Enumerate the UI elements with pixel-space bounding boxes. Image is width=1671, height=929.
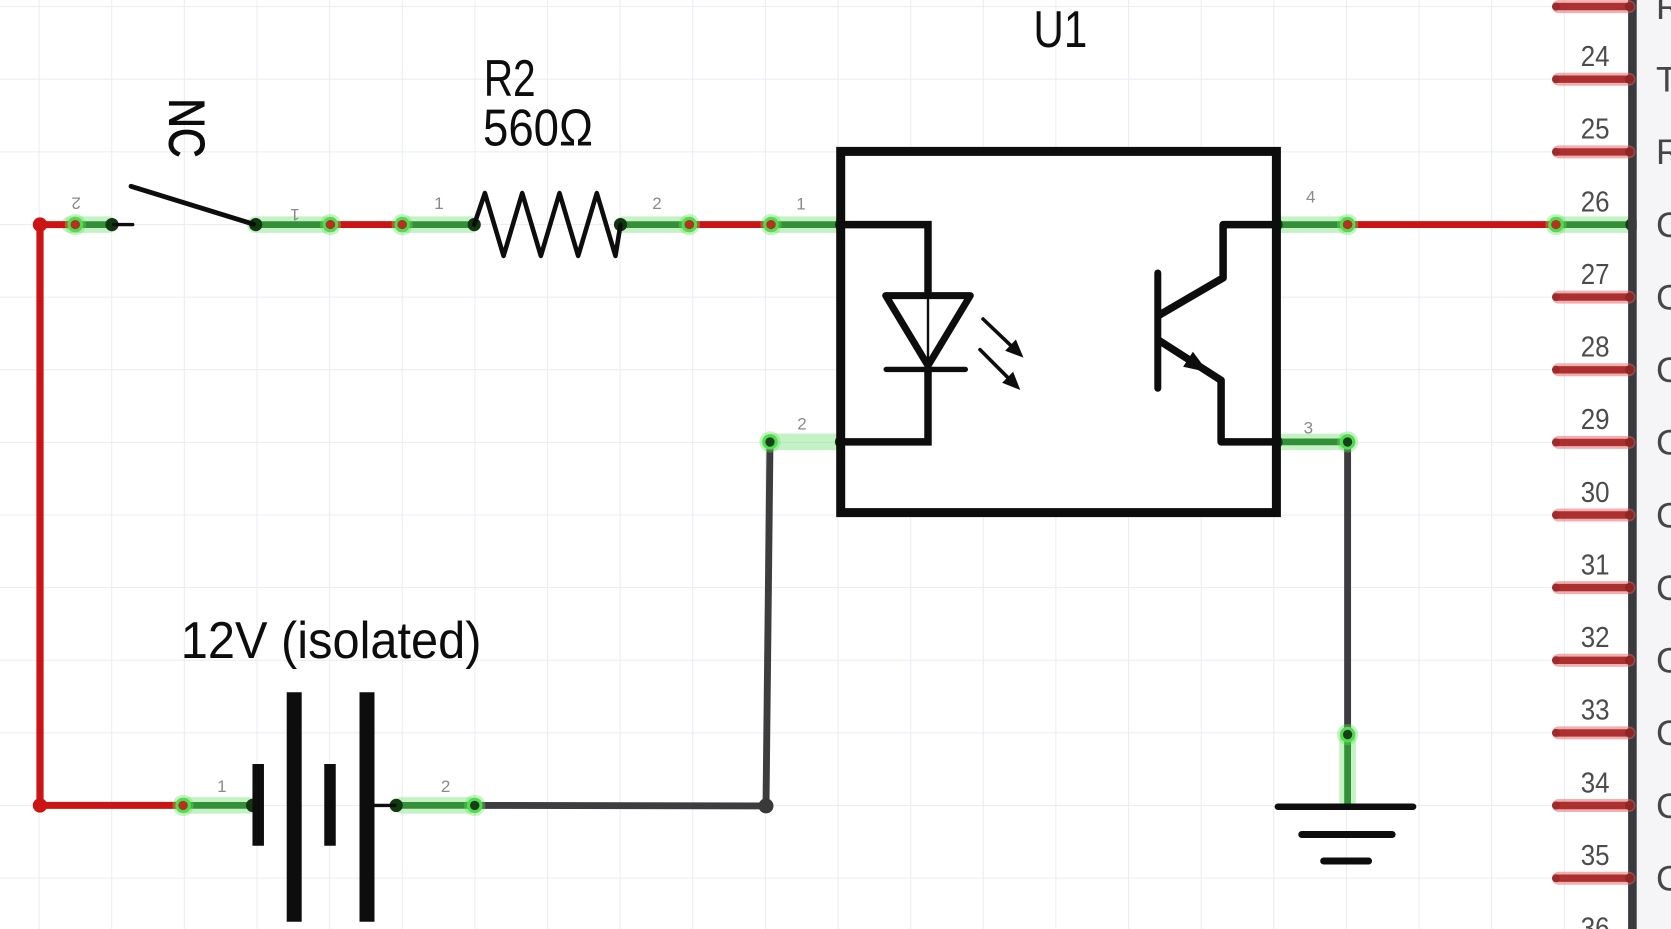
svg-text:26: 26 <box>1581 186 1610 218</box>
svg-text:33: 33 <box>1581 695 1610 727</box>
svg-text:C: C <box>1656 495 1671 535</box>
svg-text:C: C <box>1656 277 1671 317</box>
svg-text:C: C <box>1656 786 1671 826</box>
svg-text:C: C <box>1656 713 1671 753</box>
svg-text:T: T <box>1656 60 1671 100</box>
svg-text:560Ω: 560Ω <box>483 98 593 156</box>
svg-text:NC: NC <box>158 98 214 157</box>
svg-text:4: 4 <box>1306 188 1315 207</box>
svg-text:R: R <box>1656 132 1671 172</box>
svg-text:35: 35 <box>1581 840 1610 872</box>
svg-text:2: 2 <box>71 194 80 213</box>
svg-text:31: 31 <box>1581 549 1610 581</box>
svg-text:C: C <box>1656 641 1671 681</box>
svg-text:30: 30 <box>1581 477 1610 509</box>
svg-text:C: C <box>1656 859 1671 899</box>
svg-text:25: 25 <box>1581 114 1610 146</box>
svg-text:2: 2 <box>441 777 450 796</box>
svg-text:C: C <box>1656 423 1671 463</box>
svg-text:C: C <box>1656 350 1671 390</box>
svg-text:34: 34 <box>1581 767 1610 799</box>
svg-text:32: 32 <box>1581 622 1610 654</box>
svg-text:1: 1 <box>290 205 299 224</box>
svg-text:28: 28 <box>1581 332 1610 364</box>
svg-text:24: 24 <box>1581 41 1610 73</box>
svg-text:U1: U1 <box>1033 0 1087 58</box>
svg-text:1: 1 <box>434 194 443 213</box>
svg-text:2: 2 <box>652 194 661 213</box>
svg-text:C: C <box>1656 568 1671 608</box>
svg-text:27: 27 <box>1581 259 1610 291</box>
svg-text:2: 2 <box>797 414 806 433</box>
svg-text:3: 3 <box>1304 418 1313 437</box>
svg-text:1: 1 <box>796 195 805 214</box>
svg-text:36: 36 <box>1581 913 1610 929</box>
svg-text:29: 29 <box>1581 404 1610 436</box>
svg-text:C: C <box>1656 205 1671 245</box>
svg-text:12V (isolated): 12V (isolated) <box>181 611 482 669</box>
svg-text:1: 1 <box>217 777 226 796</box>
svg-text:R: R <box>1656 0 1671 27</box>
